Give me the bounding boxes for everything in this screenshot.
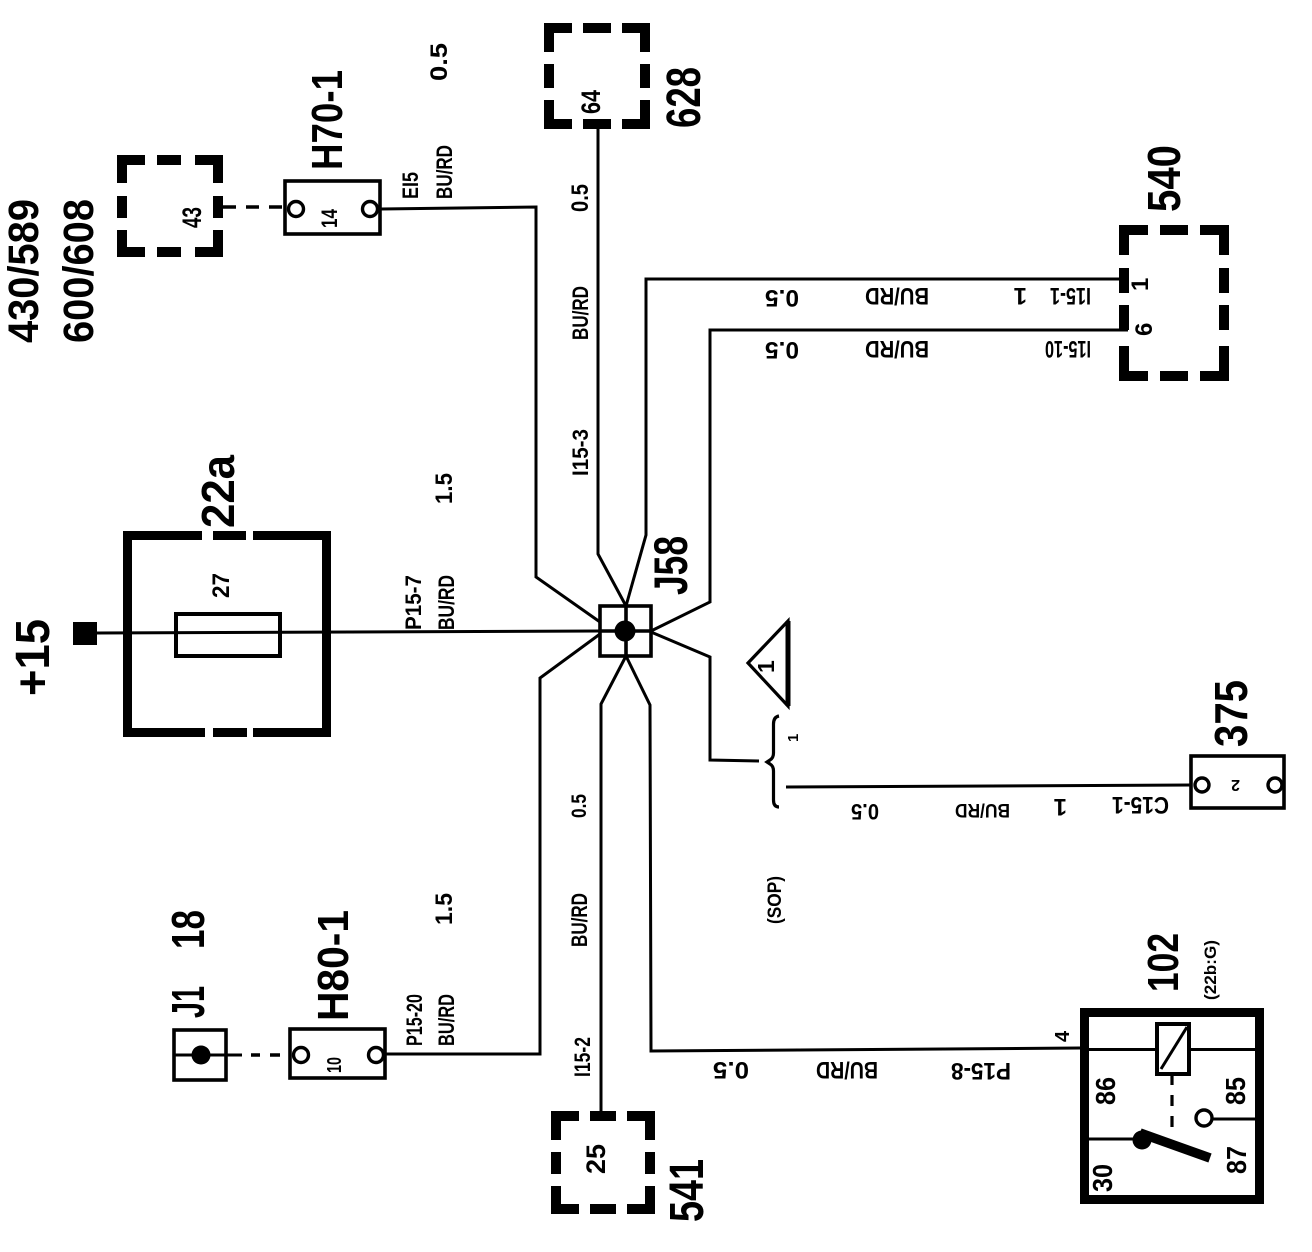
relay contact arm bbox=[1140, 1133, 1210, 1158]
wire J58 to brace bbox=[651, 632, 759, 761]
svg-text:I15-1: I15-1 bbox=[1050, 282, 1091, 309]
svg-text:14: 14 bbox=[317, 208, 342, 228]
svg-text:30: 30 bbox=[1087, 1164, 1118, 1192]
junction cross J58 bbox=[600, 606, 651, 656]
svg-text:BU/RD: BU/RD bbox=[568, 286, 593, 340]
wire 540 pin6 to J58 bbox=[651, 330, 1128, 631]
wire H80-1 to J58 bbox=[384, 634, 601, 1054]
J1 terminal dot bbox=[192, 1046, 211, 1065]
svg-text:0.5: 0.5 bbox=[851, 799, 879, 824]
pin circle right H70-1 bbox=[363, 202, 378, 217]
wire J58 to relay 102 bbox=[626, 656, 1080, 1051]
svg-text:BU/RD: BU/RD bbox=[865, 282, 929, 309]
connector body H70-1 bbox=[285, 181, 380, 234]
svg-text:1: 1 bbox=[1014, 282, 1027, 309]
connector 43 dashed box bbox=[117, 155, 223, 257]
J1 terminal box bbox=[174, 1030, 226, 1080]
triangle pointer 1 bbox=[748, 621, 788, 706]
svg-text:0.5: 0.5 bbox=[567, 184, 594, 212]
svg-text:85: 85 bbox=[1220, 1077, 1251, 1105]
svg-text:4: 4 bbox=[1052, 1030, 1074, 1042]
connector H70-1 bbox=[285, 70, 380, 234]
svg-text:375: 375 bbox=[1205, 680, 1257, 747]
connector 540 dashed box bbox=[1119, 225, 1229, 381]
wire brace to 375 bbox=[786, 785, 1192, 787]
svg-text:BU/RD: BU/RD bbox=[434, 575, 459, 630]
wire dashed link 43 to H70-1 bbox=[223, 205, 285, 209]
pin circle left H70-1 bbox=[289, 202, 304, 217]
svg-text:541: 541 bbox=[661, 1159, 714, 1222]
svg-text:BU/RD: BU/RD bbox=[816, 1056, 878, 1083]
svg-text:43: 43 bbox=[177, 207, 207, 228]
wire J58 to connector 25 bbox=[601, 656, 626, 1111]
svg-text:18: 18 bbox=[162, 910, 214, 949]
svg-text:I15-2: I15-2 bbox=[570, 1037, 595, 1077]
svg-text:P15-8: P15-8 bbox=[951, 1057, 1011, 1084]
svg-text:BU/RD: BU/RD bbox=[567, 893, 592, 947]
connector body 375 bbox=[1191, 756, 1284, 808]
wire through J1 box bbox=[174, 1054, 242, 1057]
svg-text:I15-10: I15-10 bbox=[1045, 335, 1091, 362]
relay actuation dashed line bbox=[1170, 1074, 1173, 1136]
wire H70-1 to J58 bbox=[378, 207, 601, 622]
svg-text:I15-3: I15-3 bbox=[568, 429, 593, 476]
pin circle left 375 bbox=[1195, 778, 1209, 792]
svg-text:0.5: 0.5 bbox=[568, 794, 591, 818]
+15 terminal square bbox=[73, 622, 97, 645]
connector body H80-1 bbox=[290, 1029, 385, 1078]
svg-text:64: 64 bbox=[576, 90, 606, 114]
relay coil wire bbox=[1089, 1048, 1259, 1051]
svg-text:C15-1: C15-1 bbox=[1112, 791, 1169, 818]
svg-text:1.5: 1.5 bbox=[431, 893, 458, 925]
junction box J58 bbox=[600, 606, 651, 656]
fuse 27 symbol bbox=[176, 614, 280, 656]
relay coil bbox=[1157, 1024, 1189, 1074]
pin circle right 375 bbox=[1268, 778, 1282, 792]
svg-text:600/608: 600/608 bbox=[55, 199, 103, 343]
svg-text:H80-1: H80-1 bbox=[309, 910, 358, 1021]
svg-text:22a: 22a bbox=[192, 455, 244, 528]
svg-text:0.5: 0.5 bbox=[765, 284, 799, 311]
relay pin 85 circle bbox=[1196, 1110, 1212, 1126]
node 430/589 600/608 label bbox=[0, 199, 103, 343]
wire dashed link J1 to H80-1 bbox=[251, 1053, 280, 1057]
relay contact pivot bbox=[1133, 1131, 1152, 1150]
connector 64 dashed box bbox=[544, 23, 650, 129]
pin circle right H80-1 bbox=[369, 1048, 384, 1063]
connector 25 dashed box bbox=[551, 1111, 655, 1214]
svg-text:540: 540 bbox=[1138, 145, 1190, 212]
svg-text:10: 10 bbox=[324, 1057, 346, 1073]
relay 102 box bbox=[1085, 1013, 1260, 1200]
svg-text:86: 86 bbox=[1090, 1077, 1121, 1105]
svg-text:430/589: 430/589 bbox=[0, 199, 48, 343]
svg-text:1: 1 bbox=[785, 734, 802, 742]
svg-text:628: 628 bbox=[658, 67, 711, 128]
svg-text:6: 6 bbox=[1131, 323, 1158, 336]
svg-text:BU/RD: BU/RD bbox=[955, 799, 1010, 820]
relay contact 30 wire bbox=[1088, 1138, 1138, 1141]
svg-text:BU/RD: BU/RD bbox=[432, 145, 457, 199]
svg-text:J58: J58 bbox=[644, 536, 697, 595]
svg-text:1: 1 bbox=[1127, 278, 1154, 291]
svg-text:102: 102 bbox=[1139, 933, 1188, 992]
svg-text:+15: +15 bbox=[7, 619, 60, 696]
svg-text:0.5: 0.5 bbox=[765, 336, 799, 363]
wire 64 to J58 bbox=[598, 129, 626, 606]
svg-text:EI5: EI5 bbox=[398, 172, 423, 199]
wire +15 to J58 bbox=[97, 631, 600, 633]
connector 375 bbox=[1191, 680, 1284, 808]
fusebox 22a bbox=[123, 531, 331, 737]
svg-text:(SOP): (SOP) bbox=[765, 876, 786, 924]
svg-text:P15-20: P15-20 bbox=[402, 994, 427, 1046]
svg-text:27: 27 bbox=[208, 573, 235, 598]
connector H80-1 bbox=[290, 910, 385, 1078]
brace { bbox=[767, 716, 779, 807]
wire 540 pin1 to J58 bbox=[626, 279, 1128, 606]
svg-text:0.5: 0.5 bbox=[426, 43, 453, 81]
svg-text:1.5: 1.5 bbox=[431, 473, 458, 504]
svg-text:25: 25 bbox=[581, 1144, 611, 1174]
junction dot J58 bbox=[615, 621, 636, 642]
svg-text:J1: J1 bbox=[162, 986, 214, 1018]
svg-text:BU/RD: BU/RD bbox=[434, 994, 459, 1046]
svg-text:1: 1 bbox=[1054, 793, 1067, 820]
svg-text:2: 2 bbox=[1231, 776, 1240, 793]
svg-text:87: 87 bbox=[1221, 1146, 1252, 1174]
pin circle left H80-1 bbox=[294, 1048, 309, 1063]
node J58 junction bbox=[600, 536, 697, 656]
svg-text:0.5: 0.5 bbox=[713, 1056, 749, 1083]
svg-text:BU/RD: BU/RD bbox=[865, 335, 929, 362]
svg-text:H70-1: H70-1 bbox=[303, 70, 352, 170]
svg-text:(22b:G): (22b:G) bbox=[1201, 940, 1220, 1000]
svg-text:1: 1 bbox=[753, 660, 779, 673]
relay wire 85 bbox=[1212, 1118, 1260, 1121]
svg-text:P15-7: P15-7 bbox=[401, 575, 426, 630]
